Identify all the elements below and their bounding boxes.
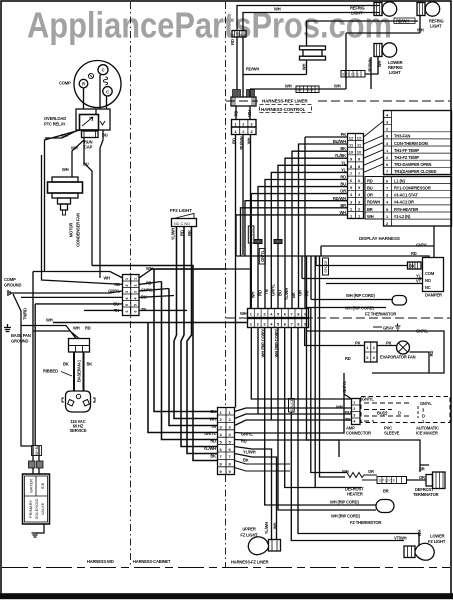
svg-text:S P L I C E: S P L I C E [379, 479, 396, 483]
svg-text:GROUND: GROUND [4, 283, 21, 288]
svg-text:WH: WH [336, 405, 343, 410]
svg-text:TN: TN [345, 417, 350, 422]
svg-text:SOLENOID: SOLENOID [34, 499, 39, 520]
svg-text:1: 1 [133, 278, 137, 280]
svg-text:WH: WH [62, 167, 69, 172]
svg-text:SPLICE: SPLICE [250, 228, 254, 241]
svg-text:TERMINATOR: TERMINATOR [413, 492, 439, 497]
svg-text:7: 7 [386, 169, 388, 174]
svg-text:FZ LIGHT: FZ LIGHT [240, 533, 258, 538]
svg-text:EVAPORATOR FAN: EVAPORATOR FAN [380, 355, 416, 360]
svg-text:BU: BU [345, 410, 351, 415]
svg-text:TR1(DAMPER CLOSED: TR1(DAMPER CLOSED [394, 169, 437, 174]
svg-text:RD: RD [411, 251, 417, 256]
svg-text:RD: RD [345, 356, 351, 361]
svg-text:RD: RD [234, 111, 239, 117]
svg-text:YL/BK: YL/BK [334, 153, 346, 158]
svg-text:TR2-DAMPER OPEN: TR2-DAMPER OPEN [394, 162, 432, 167]
svg-text:YL: YL [341, 160, 347, 165]
svg-text:HARNESS-REF LINER: HARNESS-REF LINER [262, 99, 308, 104]
svg-text:BK: BK [409, 264, 415, 269]
svg-text:TN: TN [211, 424, 216, 429]
svg-text:WH: WH [334, 84, 341, 89]
svg-text:GN/YL: GN/YL [420, 401, 432, 406]
svg-text:BK: BK [63, 362, 69, 367]
svg-text:L1 (N): L1 (N) [394, 178, 405, 183]
svg-text:YL/WH: YL/WH [284, 288, 289, 301]
svg-text:4: 4 [125, 298, 129, 300]
svg-text:CAP: CAP [84, 145, 93, 150]
svg-text:1: 1 [125, 278, 129, 280]
svg-text:TH1-FF TEMP: TH1-FF TEMP [394, 148, 419, 153]
svg-text:BR: BR [419, 467, 425, 472]
svg-text:WH: WH [377, 61, 382, 68]
svg-text:FZ THERMISTOR: FZ THERMISTOR [350, 520, 381, 525]
svg-text:5: 5 [125, 304, 129, 306]
svg-text:CONNECTOR: CONNECTOR [346, 431, 371, 436]
svg-text:1: 1 [353, 400, 355, 404]
svg-text:TN/RD: TN/RD [23, 308, 28, 320]
svg-text:OR: OR [419, 475, 425, 480]
svg-text:RIBBED: RIBBED [43, 369, 58, 374]
svg-text:GN/YL: GN/YL [362, 397, 374, 402]
svg-text:7: 7 [358, 171, 360, 176]
svg-text:GRAY: GRAY [383, 326, 394, 331]
svg-text:SPLICE: SPLICE [324, 260, 328, 273]
svg-text:RY5-HEATER: RY5-HEATER [394, 207, 418, 212]
svg-text:RD: RD [210, 439, 216, 444]
svg-text:GN/YL: GN/YL [271, 283, 276, 295]
svg-text:BU: BU [210, 409, 216, 414]
svg-text:R: R [82, 82, 85, 87]
svg-text:CON-THERM DOM: CON-THERM DOM [394, 141, 428, 146]
svg-text:OR: OR [298, 290, 303, 296]
svg-text:3: 3 [353, 413, 355, 417]
svg-text:YL/WH: YL/WH [171, 228, 176, 241]
svg-text:BR: BR [367, 207, 373, 212]
svg-text:VALVE: VALVE [40, 503, 45, 516]
svg-text:PTC RELAY: PTC RELAY [44, 122, 66, 127]
svg-text:7: 7 [350, 171, 352, 176]
svg-text:6: 6 [133, 311, 137, 313]
svg-text:LIGHT: LIGHT [389, 70, 401, 75]
svg-text:BU/WH: BU/WH [239, 136, 244, 149]
svg-text:COMP: COMP [59, 81, 71, 86]
svg-text:WH: WH [247, 110, 252, 117]
svg-text:NC: NC [425, 285, 431, 290]
svg-text:WH: WH [285, 84, 292, 89]
svg-text:WH: WH [417, 530, 422, 537]
svg-text:VT/WH: VT/WH [394, 536, 407, 541]
svg-text:WH: WH [103, 276, 110, 281]
svg-text:WH: WH [247, 138, 252, 145]
svg-text:GN/YL: GN/YL [204, 431, 216, 436]
svg-text:BU: BU [278, 290, 283, 296]
svg-text:BU(2): BU(2) [377, 411, 388, 416]
svg-text:WH: WH [273, 523, 278, 530]
svg-text:DISPLAY HARNESS: DISPLAY HARNESS [359, 236, 400, 241]
svg-text:2: 2 [133, 285, 137, 287]
svg-text:RD: RD [230, 39, 235, 45]
svg-text:3: 3 [133, 291, 137, 293]
svg-text:WH (RIP CORD): WH (RIP CORD) [261, 328, 266, 357]
svg-text:MOTOR: MOTOR [69, 223, 74, 238]
svg-text:RD: RD [85, 326, 91, 331]
svg-text:RD: RD [241, 439, 247, 444]
svg-text:BU: BU [367, 186, 373, 191]
svg-text:WH (RIP CORD): WH (RIP CORD) [345, 306, 374, 311]
svg-text:GN/YL: GN/YL [241, 431, 253, 436]
svg-text:WH (RIP CORD): WH (RIP CORD) [330, 500, 359, 505]
svg-text:PK: PK [355, 341, 361, 346]
svg-text:BASEPAN-1: BASEPAN-1 [76, 359, 81, 382]
svg-text:WH: WH [240, 311, 247, 316]
svg-text:RD: RD [429, 351, 434, 357]
svg-text:RD: RD [367, 178, 373, 183]
svg-text:S P L I C E: S P L I C E [342, 73, 359, 77]
svg-text:WH: WH [251, 292, 256, 299]
svg-text:LOWER: LOWER [430, 534, 445, 539]
svg-text:WH: WH [417, 28, 424, 33]
svg-text:#1-L2 (N): #1-L2 (N) [394, 214, 411, 219]
svg-text:#4-AC2 DR: #4-AC2 DR [394, 200, 414, 205]
svg-text:PK: PK [341, 132, 347, 137]
svg-text:PRIMARY: PRIMARY [28, 500, 33, 518]
svg-text:BK: BK [210, 453, 216, 458]
svg-text:WH: WH [274, 7, 281, 12]
svg-text:HARNESS-WD: HARNESS-WD [87, 559, 114, 564]
svg-text:C: C [102, 68, 105, 73]
svg-text:HARNESS-CONTROL: HARNESS-CONTROL [261, 107, 306, 112]
svg-text:FF2 LIGHT: FF2 LIGHT [170, 208, 192, 213]
svg-text:BU/WH: BU/WH [333, 139, 346, 144]
svg-text:WH (RIP CORD): WH (RIP CORD) [274, 328, 279, 357]
svg-text:WH: WH [367, 214, 374, 219]
svg-text:7: 7 [386, 186, 388, 191]
svg-text:SLEEVE: SLEEVE [384, 431, 400, 436]
svg-text:5: 5 [133, 304, 137, 306]
svg-text:OVERLOAD: OVERLOAD [44, 116, 66, 121]
svg-text:DAMPER: DAMPER [425, 293, 442, 298]
svg-text:BASE PAN: BASE PAN [11, 333, 31, 338]
svg-text:SERVICE: SERVICE [70, 428, 87, 433]
svg-text:YL: YL [341, 167, 347, 172]
svg-text:BK: BK [243, 458, 249, 463]
svg-text:GN/YL: GN/YL [342, 380, 347, 392]
svg-text:RD: RD [340, 175, 346, 180]
svg-text:WH BL: WH BL [35, 445, 39, 456]
svg-text:SPLICE: SPLICE [290, 398, 294, 411]
svg-text:2: 2 [353, 407, 355, 411]
svg-text:LIGHT: LIGHT [351, 11, 363, 16]
svg-text:4: 4 [133, 298, 137, 300]
svg-text:D: D [398, 411, 401, 416]
svg-text:RD/WH: RD/WH [368, 58, 373, 71]
svg-text:BR: BR [383, 489, 389, 494]
svg-text:BK: BK [87, 362, 93, 367]
svg-text:RD/WH: RD/WH [367, 200, 380, 205]
svg-text:WH: WH [209, 416, 216, 421]
svg-text:GN/YL: GN/YL [108, 289, 120, 294]
svg-text:HEATER: HEATER [347, 492, 363, 497]
svg-text:HARNESS-FZ LINER: HARNESS-FZ LINER [231, 560, 269, 565]
svg-text:WH: WH [46, 318, 53, 323]
svg-text:OR: OR [367, 193, 373, 198]
svg-text:WH: WH [73, 326, 80, 331]
svg-text:3: 3 [125, 291, 129, 293]
svg-text:TH3-FZ TEMP: TH3-FZ TEMP [394, 155, 419, 160]
svg-text:10: 10 [357, 150, 361, 155]
svg-text:2: 2 [125, 285, 129, 287]
svg-text:TN: TN [141, 307, 146, 312]
svg-text:ICE MAKER: ICE MAKER [416, 431, 438, 436]
svg-text:FZ LIGHT: FZ LIGHT [428, 539, 446, 544]
svg-text:HARNESS-CABINET: HARNESS-CABINET [133, 559, 171, 564]
svg-text:10: 10 [349, 150, 353, 155]
svg-text:NO: NO [425, 278, 432, 283]
svg-text:6: 6 [125, 311, 129, 313]
svg-text:LIGHT: LIGHT [430, 24, 442, 29]
svg-text:S P L I C E: S P L I C E [297, 88, 314, 92]
svg-text:GN/YL: GN/YL [416, 243, 428, 248]
svg-text:BK: BK [291, 292, 296, 298]
svg-text:YL/WH: YL/WH [204, 446, 217, 451]
svg-text:ICE: ICE [40, 482, 45, 489]
svg-text:WATER: WATER [29, 479, 34, 493]
svg-text:RD: RD [232, 138, 237, 144]
svg-text:WH (RIP CORD): WH (RIP CORD) [331, 514, 360, 519]
svg-text:AppliancePartsPros.com: AppliancePartsPros.com [27, 5, 392, 46]
svg-text:PK: PK [305, 290, 310, 296]
svg-text:COM: COM [425, 271, 435, 276]
svg-text:WH: WH [302, 64, 307, 71]
svg-text:YL/WH: YL/WH [264, 522, 269, 535]
svg-text:RD: RD [258, 290, 263, 296]
svg-text:PK: PK [386, 341, 392, 346]
svg-text:RD/WH: RD/WH [246, 67, 259, 72]
svg-text:YL/WH: YL/WH [243, 449, 256, 454]
svg-text:WH (RIP CORD): WH (RIP CORD) [346, 293, 375, 298]
svg-text:FZ THERMISTOR: FZ THERMISTOR [365, 312, 396, 317]
svg-text:#3-AC1 STAT: #3-AC1 STAT [394, 193, 418, 198]
svg-text:WH: WH [342, 469, 349, 474]
svg-text:UPPER: UPPER [242, 527, 256, 532]
svg-text:TH3-FAN: TH3-FAN [394, 134, 410, 139]
svg-text:OR: OR [368, 469, 374, 474]
svg-text:CONDENSER FAN: CONDENSER FAN [76, 213, 81, 247]
svg-text:NC C NO: NC C NO [174, 222, 190, 226]
svg-text:BK: BK [340, 146, 346, 151]
svg-text:TN: TN [264, 289, 269, 294]
svg-text:BU: BU [340, 182, 346, 187]
svg-text:RY1-COMPRESSOR: RY1-COMPRESSOR [394, 186, 431, 191]
svg-text:VT: VT [416, 279, 422, 284]
svg-text:COMP: COMP [4, 277, 16, 282]
svg-text:D: D [422, 414, 425, 419]
svg-text:C: C [106, 89, 109, 94]
svg-text:RD/WH: RD/WH [396, 19, 409, 24]
svg-text:GROUND: GROUND [11, 339, 28, 344]
